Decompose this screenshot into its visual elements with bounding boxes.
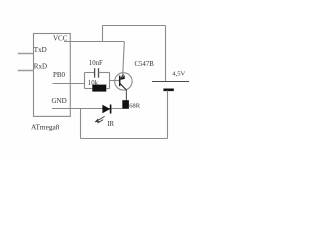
battery BT1 positive plate xyxy=(152,81,189,83)
wire battery positive lead xyxy=(165,26,167,81)
svg-text:PB0: PB0 xyxy=(53,71,66,79)
transistor Q1 collector diagonal xyxy=(120,83,126,90)
wire collector lead down from VCC xyxy=(123,42,125,76)
wire GND pin / LED row xyxy=(52,108,122,110)
wire resistor right stub xyxy=(106,88,109,90)
svg-text:TxD: TxD xyxy=(34,46,47,54)
svg-text:ATmega8: ATmega8 xyxy=(31,122,60,131)
wire VCC pin horizontal xyxy=(64,41,124,43)
wire ground drop xyxy=(80,109,82,139)
wire battery negative lead xyxy=(167,91,169,139)
svg-text:10k: 10k xyxy=(88,80,99,87)
svg-text:RxD: RxD xyxy=(34,63,47,71)
wire bottom rail xyxy=(81,138,168,140)
LED D1 cathode bar xyxy=(110,105,112,114)
wire resistor left stub xyxy=(85,88,93,90)
wire capacitor branch right xyxy=(99,72,110,74)
LED D1 emission arrow 2 xyxy=(97,120,103,124)
resistor R2 68R body xyxy=(122,100,129,109)
transistor Q1 emitter diagonal with arrow xyxy=(120,75,125,80)
capacitor C1 plates xyxy=(95,68,99,77)
svg-text:10nF: 10nF xyxy=(89,60,103,67)
pin RxD stub xyxy=(18,70,34,72)
IC U1 ATmega8 body xyxy=(34,34,71,117)
LED D1 triangle xyxy=(102,105,110,113)
wire capacitor branch left xyxy=(85,72,95,74)
battery BT1 negative plate xyxy=(163,89,173,92)
svg-text:GND: GND xyxy=(52,97,67,105)
wire VCC riser to top rail xyxy=(102,26,104,42)
transistor Q1 circle xyxy=(115,73,132,90)
svg-text:IR: IR xyxy=(107,121,114,128)
LED D1 emission arrow 1 xyxy=(96,116,105,121)
svg-text:4,5V: 4,5V xyxy=(172,71,185,78)
transistor Q1 base bar xyxy=(119,76,121,87)
wire base of transistor xyxy=(110,80,120,82)
wire emitter to resistor 68R xyxy=(125,90,127,101)
svg-text:68R: 68R xyxy=(129,102,141,109)
node A left vertical of RC xyxy=(84,73,86,89)
wire PB0 pin xyxy=(53,83,85,85)
node B right vertical of RC xyxy=(109,73,111,89)
wire top rail xyxy=(103,25,166,27)
pin TxD stub xyxy=(18,53,34,55)
svg-text:C547B: C547B xyxy=(135,61,155,68)
resistor R1 10k body xyxy=(92,85,106,92)
